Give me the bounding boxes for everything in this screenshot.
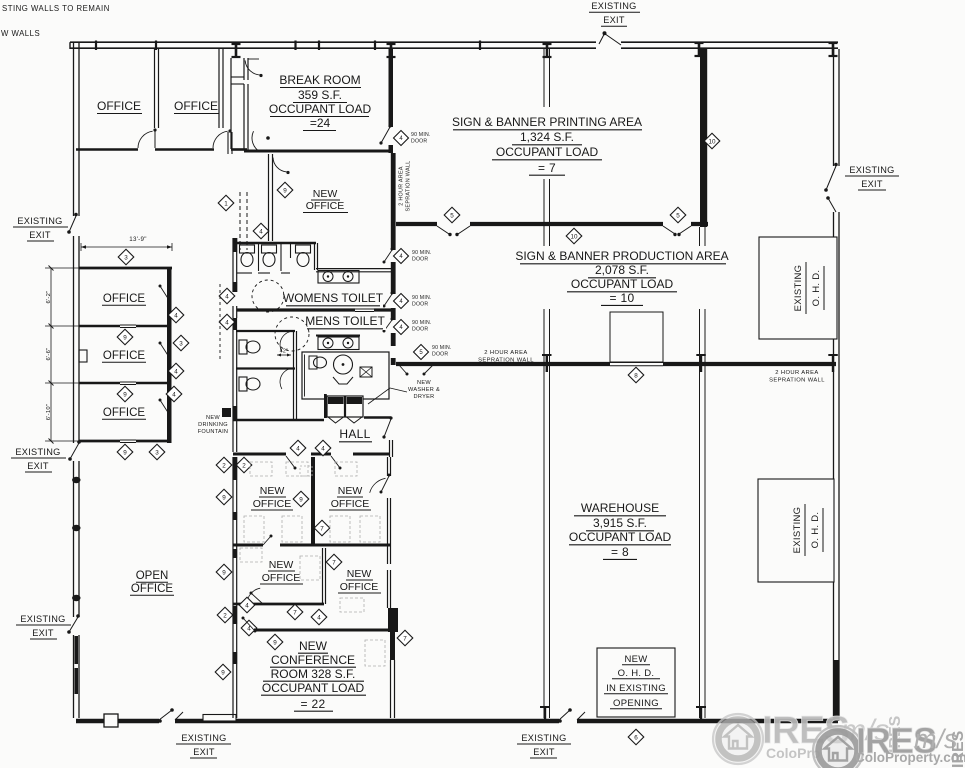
wall: mid-left office bottom y604 — [233, 603, 324, 606]
door jamb marks office2 lower — [227, 132, 229, 154]
svg-text:WOMENS TOILET: WOMENS TOILET — [283, 291, 384, 305]
svg-text:OFFICE: OFFICE — [331, 498, 370, 510]
svg-text:1: 1 — [224, 200, 228, 207]
diamond 3 above office stack — [118, 249, 134, 265]
svg-text:4: 4 — [174, 312, 178, 319]
svg-text:6'-6": 6'-6" — [46, 347, 52, 360]
door swing: bottom-middle EXISTING EXIT — [559, 710, 570, 720]
svg-text:NEW: NEW — [347, 568, 372, 580]
wall: office stack top y268 — [79, 267, 172, 270]
wall: 2-hour separation horizontal y364 — [396, 362, 610, 366]
womens stall partition 2 — [280, 243, 282, 271]
door 4 upper in separation wall — [384, 250, 392, 262]
svg-text:2: 2 — [223, 612, 227, 619]
svg-text:SIGN & BANNER PRINTING AREA: SIGN & BANNER PRINTING AREA — [452, 115, 642, 129]
svg-text:NEW: NEW — [260, 485, 285, 497]
svg-text:SEPRATION WALL: SEPRATION WALL — [406, 161, 412, 212]
svg-text:EXIT: EXIT — [29, 230, 51, 240]
svg-text:= 8: = 8 — [611, 545, 629, 559]
svg-text:10: 10 — [708, 138, 716, 145]
door swing: bottom-left EXISTING EXIT — [159, 710, 172, 720]
svg-text:5: 5 — [676, 212, 680, 219]
svg-text:13'-9": 13'-9" — [129, 236, 147, 243]
svg-text:IRES: IRES — [950, 730, 965, 768]
wall: middle block top y454 — [233, 453, 286, 456]
svg-text:= 22: = 22 — [301, 697, 326, 711]
svg-text:EXIT: EXIT — [27, 461, 49, 471]
diamond 9 between offices — [293, 491, 309, 507]
svg-text:90 MIN.: 90 MIN. — [412, 295, 432, 301]
svg-text:DOOR: DOOR — [412, 302, 428, 308]
wall: break room bottom y151 — [244, 150, 390, 153]
svg-text:9: 9 — [123, 449, 127, 456]
svg-text:1,324 S.F.: 1,324 S.F. — [520, 130, 574, 144]
diamond 4 door b — [315, 440, 331, 456]
column I-beam at grid x391 on top wall — [390, 44, 393, 57]
svg-text:NEW: NEW — [313, 188, 338, 200]
svg-text:7: 7 — [293, 609, 297, 616]
wall: thick black wall x703 from top wall to production area — [700, 48, 707, 227]
wall: top exterior double line — [70, 41, 596, 43]
svg-text:4: 4 — [245, 602, 249, 609]
wall: new office top left x270 — [268, 154, 270, 241]
svg-text:6'-10": 6'-10" — [46, 404, 52, 421]
svg-text:EXIT: EXIT — [32, 628, 54, 638]
wall: notch horizontal y270 to x391 — [316, 268, 391, 270]
svg-text:=24: =24 — [310, 116, 331, 130]
door swings production north wall (left pair) — [437, 226, 449, 234]
svg-text:OFFICE: OFFICE — [306, 200, 345, 212]
svg-text:4: 4 — [174, 368, 178, 375]
svg-text:W WALLS: W WALLS — [1, 29, 40, 38]
svg-text:9: 9 — [299, 496, 303, 503]
svg-text:DOOR: DOOR — [411, 139, 427, 145]
door swing from chase into break room — [245, 60, 261, 75]
watermark IRES logo 1 (circle + house) — [713, 714, 763, 764]
svg-text:O. H. D.: O. H. D. — [810, 512, 821, 549]
diamond 4 stack right 1 — [168, 307, 184, 323]
wall: left exterior double line — [73, 43, 75, 216]
42 inch dimension arrow — [277, 354, 291, 356]
svg-text:4: 4 — [225, 293, 229, 300]
svg-text:9: 9 — [222, 494, 226, 501]
diamond 4 door a — [290, 440, 306, 456]
wall: conference top y630 — [254, 629, 390, 632]
svg-text:9: 9 — [123, 334, 127, 341]
black wall chunk right of mid-right office — [388, 608, 398, 632]
svg-text:2,078 S.F.: 2,078 S.F. — [595, 263, 649, 277]
diamond 9 left wall upper — [216, 489, 232, 505]
watermark IRES logo 2 (circle + house) — [813, 726, 863, 768]
door 4 lower in separation wall — [384, 320, 392, 331]
svg-text:10: 10 — [570, 233, 578, 240]
svg-text:EXISTING: EXISTING — [591, 1, 636, 11]
wall: production area north y224 — [396, 222, 437, 226]
wall: right exterior double line — [833, 49, 835, 166]
diamond 4 stack right 2 — [168, 363, 184, 379]
diamond 8 — [628, 367, 644, 383]
wall: right wall x389 segments — [387, 457, 389, 476]
svg-text:2: 2 — [222, 462, 226, 469]
column line x546 vertical double — [543, 49, 545, 718]
floor drain x-box — [360, 367, 372, 377]
black segments toilet left wall — [233, 238, 238, 252]
diamond 9 left wall mid — [216, 564, 232, 580]
diamond 9 stack1 — [117, 329, 133, 345]
column I-beam at grid x833 on top wall — [832, 43, 835, 56]
diamond 7 center — [314, 520, 330, 536]
svg-text:NEW: NEW — [624, 654, 647, 665]
wall: office stack divider y326 — [79, 325, 120, 328]
svg-text:EXISTING: EXISTING — [17, 216, 62, 226]
svg-text:4: 4 — [259, 228, 263, 235]
svg-text:8: 8 — [634, 372, 638, 379]
svg-text:EXIT: EXIT — [603, 15, 625, 25]
svg-text:EXIT: EXIT — [193, 747, 215, 757]
svg-text:EXIT: EXIT — [861, 179, 883, 189]
door swings middle block top — [286, 456, 295, 468]
halo behind printing label — [448, 107, 648, 179]
svg-text:90 MIN.: 90 MIN. — [411, 132, 431, 138]
door swing office2 east — [381, 476, 389, 492]
diamond 2 left b — [236, 457, 252, 473]
svg-text:EXISTING: EXISTING — [20, 614, 65, 624]
svg-text:2: 2 — [242, 462, 246, 469]
womens handicap stall wall — [290, 243, 292, 258]
svg-text:NEW: NEW — [299, 639, 328, 653]
svg-text:OFFICE: OFFICE — [97, 99, 141, 113]
svg-text:IN EXISTING: IN EXISTING — [606, 683, 666, 694]
door swing into new office top — [273, 158, 287, 172]
diamond 9 stack2 — [117, 386, 133, 402]
svg-text:2 HOUR AREA: 2 HOUR AREA — [775, 370, 818, 376]
wall: divider x324 lower — [322, 548, 324, 604]
wall: chase left x231 / right x244 below top wall — [230, 58, 232, 149]
svg-text:OCCUPANT LOAD: OCCUPANT LOAD — [262, 681, 365, 695]
svg-text:OFFICE: OFFICE — [253, 498, 292, 510]
wall: offices bottom y149.5 — [76, 148, 138, 151]
wall: office stack right x169 — [167, 268, 172, 443]
svg-text:4: 4 — [296, 445, 300, 452]
diamond 4 hall top — [253, 223, 269, 239]
svg-text:6'-2": 6'-2" — [46, 290, 52, 303]
door swing mid divider — [263, 536, 271, 545]
column I-beam at grid x699 on top wall — [698, 43, 701, 56]
closet box on left wall of middle office — [79, 350, 87, 362]
svg-text:90 MIN.: 90 MIN. — [432, 345, 452, 351]
svg-text:EXISTING: EXISTING — [15, 447, 60, 457]
svg-text:DOOR: DOOR — [412, 327, 428, 333]
janitor toilet fixture — [309, 356, 317, 369]
mens sink wall stub — [316, 335, 360, 337]
hall east door swing — [384, 419, 391, 437]
diamond 9 new office top — [277, 182, 293, 198]
diamond 1 corridor — [218, 195, 234, 211]
svg-text:9: 9 — [221, 669, 225, 676]
mens toilet fixture room1 — [239, 340, 247, 354]
svg-text:359 S.F.: 359 S.F. — [298, 88, 342, 102]
dashed new-wall line in corridor — [239, 192, 241, 250]
svg-text:9: 9 — [222, 569, 226, 576]
door office2 swing — [213, 131, 228, 148]
wall: break room right x391 upper — [389, 49, 394, 127]
svg-text:WASHER &: WASHER & — [408, 387, 440, 393]
diamond 9 stack3 — [117, 444, 133, 460]
column ticks on bottom wall — [544, 707, 546, 719]
wall: office stack divider y383 — [79, 382, 120, 385]
svg-text:7: 7 — [403, 635, 407, 642]
wall: conference right x392 — [390, 632, 395, 660]
svg-text:OFFICE: OFFICE — [103, 350, 145, 362]
door swings production north wall (right pair) — [663, 226, 675, 234]
svg-text:OCCUPANT LOAD: OCCUPANT LOAD — [496, 145, 599, 159]
diamond 4 a — [239, 597, 255, 613]
svg-text:EXIT: EXIT — [533, 747, 555, 757]
dashed furniture lower offices — [240, 548, 262, 562]
svg-text:OFFICE: OFFICE — [103, 293, 145, 305]
svg-text:BREAK ROOM: BREAK ROOM — [279, 73, 360, 87]
svg-text:OFFICE: OFFICE — [174, 99, 218, 113]
svg-text:7: 7 — [320, 525, 324, 532]
diamond 4 with 90 MIN DOOR label (break room door) — [394, 131, 409, 146]
svg-text:OCCUPANT LOAD: OCCUPANT LOAD — [569, 530, 672, 544]
column I-beam at grid x547 on top wall — [546, 44, 549, 57]
svg-text:NEW: NEW — [417, 380, 431, 386]
svg-text:OCCUPANT LOAD: OCCUPANT LOAD — [571, 277, 674, 291]
svg-text:4: 4 — [172, 391, 176, 398]
door swing: break room lower-left — [252, 131, 261, 152]
womens stall front wall y273 — [237, 272, 252, 274]
halo behind womens toilet label — [284, 290, 383, 307]
thick segments on lower left wall — [75, 636, 79, 664]
svg-text:NEW: NEW — [269, 559, 294, 571]
svg-text:90 MIN.: 90 MIN. — [412, 320, 432, 326]
diamond 4 womens door left — [219, 288, 235, 304]
mens small room walls — [236, 330, 295, 332]
svg-text:SIGN & BANNER PRODUCTION AREA: SIGN & BANNER PRODUCTION AREA — [515, 249, 728, 263]
svg-text:EXISTING: EXISTING — [793, 265, 804, 312]
svg-text:3: 3 — [124, 254, 128, 261]
svg-text:OCCUPANT LOAD: OCCUPANT LOAD — [269, 102, 372, 116]
column line x702 vertical double (below y227) — [699, 227, 701, 718]
svg-text:OPEN: OPEN — [136, 570, 169, 582]
chase jog opening — [231, 76, 244, 78]
womens stall partition 1 — [258, 243, 260, 271]
wall: break room left x246 — [243, 84, 245, 150]
svg-text:OFFICE: OFFICE — [262, 572, 301, 584]
svg-text:4: 4 — [317, 614, 321, 621]
halo behind mens toilet label — [304, 313, 386, 330]
wall: middle divider y545 — [233, 544, 263, 547]
column dots on left wall — [72, 477, 80, 483]
womens dashed turn circle — [252, 280, 284, 312]
dashed corridor rect left of toilets — [219, 284, 221, 360]
svg-text:= 10: = 10 — [610, 291, 635, 305]
womens toilet fixture 3 — [296, 245, 311, 253]
new OHD box bottom — [597, 648, 675, 717]
svg-text:4: 4 — [321, 445, 325, 452]
door swing: right EXISTING EXIT — [826, 166, 836, 190]
svg-text:DRYER: DRYER — [414, 394, 435, 400]
svg-text:4: 4 — [225, 319, 229, 326]
diamond 7 mid — [326, 554, 342, 570]
svg-text:O. H. D.: O. H. D. — [618, 668, 655, 679]
wall: womens/mens divider y310 — [237, 308, 355, 311]
door swing mid-left office — [247, 588, 260, 603]
svg-text:EXISTING: EXISTING — [181, 733, 226, 743]
wall: hall north y420 — [233, 419, 324, 421]
door gap in x391 wall with swing — [381, 127, 390, 143]
svg-text:STING WALLS TO REMAIN: STING WALLS TO REMAIN — [2, 4, 110, 13]
column tick x546 at separation wall — [546, 355, 548, 372]
dimension string left of office stack — [50, 268, 52, 441]
column ticks on top wall — [95, 41, 97, 51]
wall: top-left corner stub — [69, 42, 71, 49]
svg-text:NEW: NEW — [206, 415, 220, 421]
svg-text:DOOR: DOOR — [412, 257, 428, 263]
diamond 4 c — [311, 609, 327, 625]
dashed furniture upper offices — [250, 462, 272, 476]
mens sink counter — [318, 337, 359, 350]
svg-text:EXISTING: EXISTING — [521, 733, 566, 743]
door office1 swing — [138, 131, 153, 148]
existing OHD box lower — [758, 479, 834, 582]
door 8 leaf rectangle — [610, 312, 663, 362]
womens toilet fixture 1 — [240, 245, 255, 253]
svg-text:EXISTING: EXISTING — [792, 507, 803, 554]
wall: office stack bottom y441 — [79, 440, 120, 443]
door swing conference — [243, 618, 254, 630]
wall: bottom exterior — [76, 719, 159, 723]
svg-text:MENS TOILET: MENS TOILET — [305, 314, 385, 328]
diamond 9 conference — [267, 634, 283, 650]
svg-text:9: 9 — [273, 639, 277, 646]
door arcs small rooms — [280, 331, 293, 352]
svg-text:OFFICE: OFFICE — [340, 581, 379, 593]
wall: womens toilet top y243 — [236, 242, 316, 245]
diamond 10 on wall x703 — [704, 133, 720, 149]
wall: toilet block left x235 — [232, 238, 234, 292]
diamond 7 lower — [287, 604, 303, 620]
wall: hall east x391 stub — [389, 440, 391, 457]
column I-beam at grid x236 on top wall — [235, 44, 238, 57]
column tick x833 at separation wall — [832, 355, 834, 372]
svg-text:7: 7 — [332, 559, 336, 566]
wall: x391 stub to bottom wall of break room — [389, 145, 394, 153]
diamond 7 conference right — [397, 630, 413, 646]
svg-text:= 7: = 7 — [538, 161, 556, 175]
mens dashed turn circle — [275, 317, 309, 351]
svg-text:3,915 S.F.: 3,915 S.F. — [593, 516, 647, 530]
svg-text:OPENING: OPENING — [613, 698, 659, 709]
diamond 5 production left — [444, 207, 460, 223]
door 5 at hall / separation wall corner — [399, 365, 407, 374]
svg-text:O. H. D.: O. H. D. — [811, 270, 822, 307]
svg-text:OFFICE: OFFICE — [103, 407, 145, 419]
stoop rectangle on bottom wall — [203, 715, 236, 722]
column tick x701 at separation wall — [700, 355, 702, 372]
existing OHD box upper — [759, 237, 837, 339]
womens toilet fixture 2 — [262, 245, 277, 253]
wall: office2 right divider x220 — [218, 49, 220, 129]
diamond 3 stack bottom — [149, 444, 165, 460]
svg-text:SEPRATION WALL: SEPRATION WALL — [769, 378, 825, 384]
svg-text:SEPRATION WALL: SEPRATION WALL — [478, 358, 534, 364]
svg-text:CONFERENCE: CONFERENCE — [271, 653, 355, 667]
mens toilet fixture room2 — [239, 377, 247, 391]
svg-text:WAREHOUSE: WAREHOUSE — [581, 501, 659, 515]
diamond 4 b — [241, 620, 257, 636]
diamond 2 c — [217, 607, 233, 623]
door 4 middle in separation wall — [384, 294, 392, 306]
svg-text:5: 5 — [450, 212, 454, 219]
diamond 4 stack right 3 — [166, 386, 182, 402]
wall: office1/office2 divider x156 — [154, 49, 156, 129]
svg-text:DRINKING: DRINKING — [198, 422, 228, 428]
wall: 2-hour separation vertical x393 — [391, 153, 396, 250]
door swing: top EXISTING EXIT — [599, 34, 605, 45]
diamond 4 mens door left — [219, 314, 235, 330]
svg-text:DOOR: DOOR — [432, 352, 448, 358]
janitor room outline — [302, 352, 389, 399]
drinking fountain box — [222, 408, 231, 417]
wall: notch vertical x316 — [314, 243, 316, 270]
door swings office stack right wall — [160, 286, 169, 300]
thick segment right wall near bottom — [834, 660, 839, 721]
svg-text:EXISTING: EXISTING — [849, 165, 894, 175]
diamond 9 left wall lower — [215, 664, 231, 680]
column box on bottom wall — [104, 714, 118, 727]
svg-text:OFFICE: OFFICE — [131, 583, 173, 595]
svg-text:FOUNTAIN: FOUNTAIN — [198, 429, 229, 435]
svg-text:HALL: HALL — [339, 427, 370, 441]
door swing: left EXISTING EXIT middle — [70, 443, 79, 459]
svg-text:90 MIN.: 90 MIN. — [412, 250, 432, 256]
svg-text:2 HOUR AREA: 2 HOUR AREA — [484, 350, 527, 356]
diamond 2 left a — [216, 457, 232, 473]
halo behind warehouse label — [566, 498, 674, 563]
svg-text:3: 3 — [155, 449, 159, 456]
wall: middle block left x234 black segments — [233, 457, 238, 480]
diamond 10 below production wall — [566, 228, 582, 244]
halo behind production label — [515, 246, 731, 309]
svg-text:9: 9 — [283, 187, 287, 194]
svg-text:2 HOUR AREA: 2 HOUR AREA — [399, 166, 405, 206]
svg-text:3: 3 — [179, 340, 183, 347]
svg-text:NEW: NEW — [338, 485, 363, 497]
svg-text:6: 6 — [634, 734, 638, 741]
door 8 opening thin lines — [610, 362, 663, 364]
door swing: left EXISTING EXIT upper — [69, 216, 76, 232]
mop sink circle — [334, 355, 353, 374]
svg-text:ROOM 328 S.F.: ROOM 328 S.F. — [271, 667, 356, 681]
door swing: left EXISTING EXIT lower — [69, 617, 78, 632]
womens sink counter — [318, 271, 359, 284]
diamond 3 stack right — [173, 335, 189, 351]
svg-text:9: 9 — [123, 391, 127, 398]
diamond 5 production right — [670, 207, 686, 223]
diamond 6 below new OHD — [628, 729, 644, 745]
washer dryer boxes — [324, 394, 327, 418]
wall: divider x313 — [311, 457, 315, 545]
